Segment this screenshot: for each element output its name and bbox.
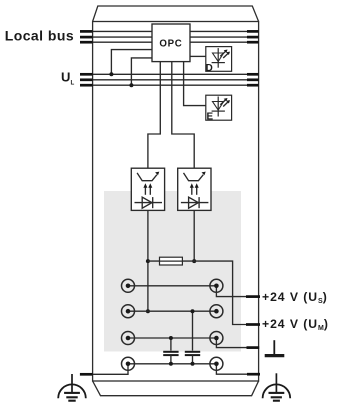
wire OPC pin1 to optocoupler 1: [148, 62, 160, 169]
wire OPC left pin B to UL line3: [131, 58, 152, 85]
UL line 3: [93, 84, 259, 86]
row3 wire: [128, 337, 216, 339]
local bus line 1: [93, 30, 259, 32]
UL line 1: [93, 73, 259, 75]
local bus line 2: [93, 36, 259, 38]
node opto1/row2 junction: [146, 309, 150, 313]
row4 wire: [128, 363, 216, 365]
svg-text:U: U: [61, 70, 70, 85]
wire row4 right to FE stub: [216, 364, 258, 374]
svg-text:Local bus: Local bus: [5, 27, 74, 43]
node junction on UL line1: [109, 72, 113, 76]
UM stub: [246, 323, 260, 326]
optocoupler U3 box: [178, 168, 211, 210]
svg-text:+24 V (UM): +24 V (UM): [262, 317, 328, 332]
wire row4 left to FE stub: [93, 364, 128, 375]
terminal 1.3: [122, 332, 135, 345]
terminal 2.2: [210, 305, 223, 318]
UL right stubs: [247, 74, 259, 85]
LED E box: [206, 95, 232, 122]
earth left: [58, 374, 86, 401]
svg-text:+24 V (US): +24 V (US): [262, 290, 327, 305]
optocoupler U2 box: [131, 168, 164, 210]
module front face: [93, 22, 259, 382]
wire row1 to US stub: [216, 286, 259, 297]
terminal 2.4: [210, 357, 223, 370]
fuse F1: [160, 257, 183, 265]
FE left stub: [80, 373, 93, 376]
LED D box: [206, 47, 232, 74]
node opto1/fuse-left junction: [146, 259, 150, 263]
terminal 2.3: [210, 332, 223, 345]
wire row3 to gnd stub: [216, 338, 258, 348]
capacitor C1: [163, 336, 178, 366]
svg-text:D: D: [206, 63, 213, 74]
row1 wire: [128, 285, 216, 287]
row2 wire: [128, 310, 216, 312]
wire fuse rail to UM stub: [148, 261, 260, 324]
wire OPC left pin A to UL line1: [111, 50, 152, 75]
svg-text:L: L: [71, 80, 75, 87]
node opto2/fuse-right junction: [192, 259, 196, 263]
module top face: [93, 6, 259, 22]
UL left stubs: [80, 74, 93, 85]
gnd stub: [247, 346, 260, 349]
terminal 1.1: [122, 279, 135, 292]
local bus left stubs: [80, 31, 93, 42]
US stub: [246, 295, 260, 298]
op-amp U1 OPC block: [152, 24, 190, 62]
local bus right stubs: [247, 31, 259, 42]
earth right: [263, 373, 291, 400]
terminal 1.4: [122, 357, 135, 370]
terminal 1.2: [122, 305, 135, 318]
gray inner zone: [104, 191, 241, 352]
wire optocoupler1 to row2: [147, 210, 149, 311]
wire optocoupler2 to fuse-right: [193, 210, 195, 261]
UL line 2: [93, 79, 259, 81]
ground bar symbol: [265, 340, 285, 355]
node junction on UL line3: [129, 83, 133, 87]
svg-text:E: E: [207, 112, 214, 123]
local bus line 3: [93, 41, 259, 43]
module bottom face: [93, 381, 259, 396]
wire OPC pin3 to LED E: [184, 62, 206, 106]
terminal 2.1: [210, 279, 223, 292]
wire OPC pin2 to optocoupler 2: [172, 62, 194, 169]
svg-text:OPC: OPC: [159, 38, 182, 49]
wire OPC to LED D: [190, 55, 206, 57]
capacitor C2: [185, 309, 200, 366]
FE right stub: [247, 373, 260, 376]
